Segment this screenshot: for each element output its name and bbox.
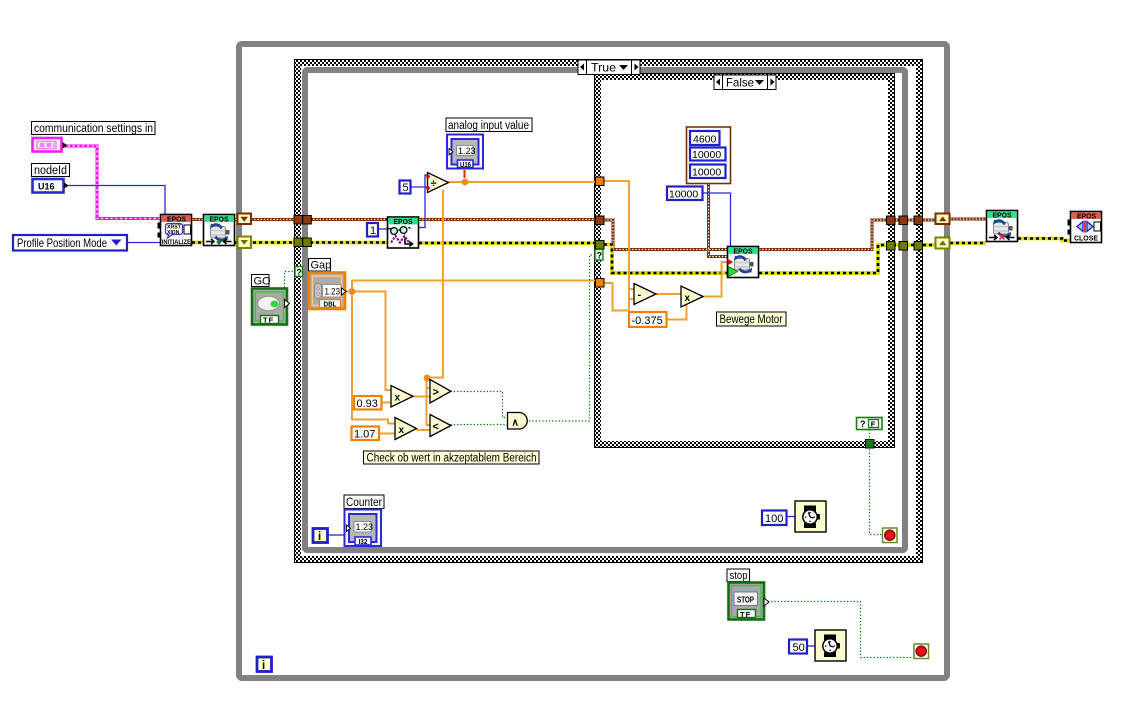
svg-text:1.23: 1.23 (458, 146, 476, 156)
control: Profile Position Mode (enum) (13, 235, 127, 251)
tunnel: device out of inner loop (899, 216, 908, 225)
tunnel: device into outer case (294, 216, 303, 225)
svg-text:communication settings in: communication settings in (34, 123, 153, 135)
svg-text:Check ob wert in akzeptablem B: Check ob wert in akzeptablem Bereich (367, 453, 537, 465)
svg-text:10000: 10000 (669, 188, 698, 200)
svg-text:-: - (638, 289, 642, 301)
svg-text:10000: 10000 (692, 166, 721, 178)
while loop (inner) (305, 70, 905, 550)
wire: i to Counter (blue) (328, 534, 344, 536)
constant: 5 (400, 181, 411, 195)
svg-text:stop: stop (730, 570, 748, 582)
svg-text:>: > (433, 387, 439, 399)
control: Gap (DBL) (309, 273, 346, 310)
case selector label True (578, 60, 640, 75)
function: multiply upper-bound (395, 418, 417, 440)
tunnel: error out of inner case (887, 242, 896, 251)
wire: boolean GO to case selector (green dotted) (285, 255, 915, 658)
svg-text:DBL: DBL (324, 300, 337, 309)
constant: 100 (762, 511, 787, 526)
svg-text:÷: ÷ (431, 178, 437, 190)
function: greater (430, 380, 451, 404)
svg-text:1: 1 (370, 225, 376, 237)
svg-text:TF: TF (740, 610, 751, 619)
svg-text:True: True (591, 61, 616, 75)
function: less (430, 415, 451, 437)
tunnel: boolean out of inner case (866, 440, 875, 449)
svg-text:x: x (685, 293, 691, 304)
svg-text:x: x (395, 393, 401, 404)
control: stop (boolean STOP button) (729, 583, 770, 620)
wire: EPOS3 inputs (blue) (328, 175, 815, 646)
VI: EPOS Close (1068, 212, 1102, 243)
wire: greater to AND (451, 392, 508, 418)
indicator: Counter (I32) (345, 510, 382, 547)
svg-text:INITIALIZE: INITIALIZE (162, 239, 192, 246)
svg-text:U16: U16 (38, 182, 55, 192)
shift register left (error) (238, 237, 252, 249)
indicator: analog input value (U16) (447, 135, 483, 169)
loop condition terminal (inner) (883, 528, 898, 543)
label: analog input value (446, 118, 532, 132)
VI: EPOS Initialize (158, 215, 192, 247)
tunnel: gap into inner case (596, 279, 605, 288)
junction dot: divide output (462, 179, 469, 186)
svg-text:4600: 4600 (693, 133, 717, 145)
wire: motion parameter cluster constant to EPOS move (709, 184, 728, 257)
control: communication settings in (pink cluster) (33, 138, 68, 152)
loop condition terminal (outer) (914, 644, 929, 659)
svg-text:10000: 10000 (692, 149, 721, 161)
function: divide (426, 173, 448, 193)
iteration terminal (outer loop) (257, 657, 272, 672)
svg-text:x: x (399, 425, 405, 436)
label: Bewege Motor (717, 312, 787, 326)
svg-text:1.07: 1.07 (354, 428, 375, 440)
svg-text:Gap: Gap (311, 260, 332, 272)
selector terminal of outer case (295, 267, 303, 278)
svg-text:STOP: STOP (737, 595, 754, 604)
svg-text:TF: TF (263, 316, 274, 325)
constant: 50 (789, 640, 807, 654)
wire: stop button to outer loop stop terminal (765, 602, 915, 658)
function: multiply scale (681, 286, 703, 307)
tunnel: error out of outer case (914, 242, 923, 251)
svg-text:i: i (262, 660, 265, 672)
constant: -0.375 (629, 312, 667, 327)
svg-text:50: 50 (793, 642, 805, 654)
wire: 100 to wait ms (blue) (786, 516, 795, 518)
label: Gap (309, 259, 332, 272)
label: communication settings in (32, 122, 156, 136)
svg-text:False: False (726, 76, 754, 90)
tunnel: error into inner case (596, 241, 605, 250)
svg-text:5: 5 (403, 182, 409, 194)
wire: 10000 constant to EPOS move (blue) (703, 193, 731, 246)
svg-text:analog input value: analog input value (448, 120, 529, 132)
while loop (outer) (239, 44, 947, 678)
constant: stop-frame boolean (?F) (857, 418, 883, 430)
wire: error cluster (yellow/black dashed) (192, 239, 1070, 274)
svg-text:0.93: 0.93 (357, 398, 378, 410)
svg-text:Profile Position Mode: Profile Position Mode (17, 236, 107, 250)
svg-text:Bewege Motor: Bewege Motor (720, 314, 783, 326)
case structure True (outer case) (295, 60, 923, 563)
wire: 50 to wait ms (blue) (807, 645, 815, 647)
svg-text:-0.375: -0.375 (632, 315, 663, 327)
tunnel: error out of inner loop (899, 242, 908, 251)
junction dot: gap output (349, 288, 356, 295)
shift register right (error) (936, 238, 950, 249)
shift register left (device) (238, 214, 252, 225)
svg-text:U16: U16 (460, 162, 471, 169)
svg-text:Counter: Counter (346, 497, 382, 509)
tunnel: device out of inner case (887, 216, 896, 225)
wire: less to AND (451, 424, 508, 426)
constant: 10000 (667, 187, 703, 201)
tunnel: error into outer case (294, 238, 303, 247)
svg-text:<: < (433, 421, 439, 433)
svg-text:F: F (871, 420, 876, 429)
svg-text:EPOS: EPOS (1077, 212, 1096, 221)
constant: 0.93 (354, 396, 382, 410)
label: Check ob wert in akzeptablem Bereich (364, 451, 540, 465)
svg-text:?: ? (296, 267, 302, 277)
junction dot: compare branch (424, 375, 431, 382)
label: nodeId (32, 164, 70, 178)
VI: EPOS Move to Position (728, 247, 759, 278)
svg-text:I32: I32 (359, 539, 368, 546)
control: GO (boolean slide) (252, 289, 290, 325)
svg-text:1.23: 1.23 (325, 286, 341, 297)
svg-text:i: i (318, 531, 321, 543)
wire: device handle cluster (brown dotted) init to epos2 (192, 184, 986, 257)
iteration terminal (inner loop) (313, 529, 328, 544)
VI: EPOS Get Analog Input (388, 217, 419, 248)
wire: AND to inner case selector (529, 255, 595, 421)
constant: 1.07 (352, 427, 380, 441)
constant: 1 (367, 223, 378, 237)
coercion stub to analog indicator (464, 170, 466, 178)
control: nodeId (U16) (33, 179, 69, 193)
function: wait until next ms multiple (inner) (795, 501, 826, 532)
tunnel: device out of outer case (914, 216, 923, 225)
VI: EPOS Disable (987, 211, 1018, 242)
wire: nodeId (blue) (64, 186, 165, 215)
svg-text:∧: ∧ (512, 418, 519, 429)
svg-text:GO: GO (254, 276, 272, 288)
function: multiply lower-bound (391, 386, 413, 408)
case selector label False (714, 75, 776, 90)
function: AND (508, 413, 528, 430)
tunnel: analog into inner case (596, 177, 605, 186)
svg-text:EPOS: EPOS (167, 215, 186, 224)
wire: analog value DBL (orange) (346, 181, 727, 434)
tunnel: error into inner loop (303, 238, 312, 247)
tunnel: device into inner loop (303, 216, 312, 225)
wire: comm settings cluster (pink dashed) (63, 146, 160, 219)
function: subtract (634, 284, 656, 305)
svg-text:1.23: 1.23 (356, 522, 374, 532)
wire: Profile Position Mode enum (blue) (128, 242, 160, 244)
svg-text:?: ? (597, 251, 603, 261)
tunnel: device into inner case (596, 216, 605, 225)
VI: EPOS Enable (motor) (204, 215, 235, 246)
svg-text:XIDN: XIDN (167, 230, 180, 236)
svg-text:100: 100 (765, 513, 783, 525)
svg-text:nodeId: nodeId (34, 165, 67, 177)
wire: false-const to inner loop stop terminal (870, 430, 883, 535)
case structure False (inner case) (595, 74, 895, 448)
function: wait until next ms multiple (outer) (815, 630, 846, 661)
label: Counter (344, 495, 384, 509)
shift register right (device) (936, 214, 950, 225)
svg-text:CLOSE: CLOSE (1074, 234, 1098, 243)
constant: motion profile cluster (4600,10000,10000) (687, 127, 731, 184)
label: stop (727, 569, 750, 582)
label: GO (252, 275, 272, 288)
selector terminal of inner case (595, 250, 603, 261)
svg-text:?: ? (860, 419, 866, 429)
